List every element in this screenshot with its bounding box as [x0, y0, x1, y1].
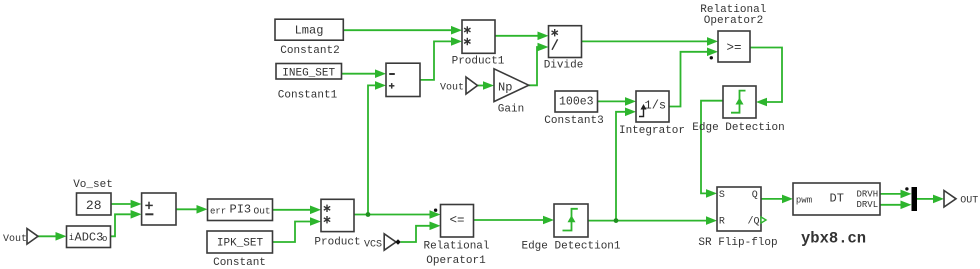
svg-text:Operator2: Operator2	[704, 15, 763, 27]
svg-text:R: R	[719, 217, 725, 228]
svg-text:/Q: /Q	[748, 216, 760, 228]
svg-text:i: i	[69, 233, 74, 243]
svg-text:Edge Detection1: Edge Detection1	[521, 241, 620, 253]
svg-text:Vo_set: Vo_set	[73, 179, 113, 191]
svg-text:Constant2: Constant2	[280, 45, 339, 57]
svg-text:o: o	[102, 234, 107, 244]
svg-text:PI3: PI3	[230, 203, 252, 217]
svg-text:OUT: OUT	[960, 196, 978, 207]
svg-text:28: 28	[86, 198, 102, 213]
svg-text:<=: <=	[449, 214, 464, 228]
svg-text:Product1: Product1	[452, 56, 505, 68]
svg-text:DT: DT	[830, 192, 844, 206]
svg-text:ADC3: ADC3	[75, 231, 104, 245]
svg-text:err: err	[210, 207, 226, 217]
svg-text:Constant3: Constant3	[544, 115, 603, 127]
svg-text:Vout: Vout	[440, 83, 464, 94]
svg-text:Np: Np	[498, 81, 512, 95]
svg-text:DRVL: DRVL	[857, 200, 879, 210]
svg-text:S: S	[719, 190, 725, 201]
svg-text:Operator1: Operator1	[426, 255, 486, 267]
svg-text:pwm: pwm	[796, 196, 812, 206]
svg-text:IPK_SET: IPK_SET	[217, 238, 264, 250]
svg-text:Product: Product	[314, 237, 360, 249]
svg-text:INEG_SET: INEG_SET	[282, 68, 335, 80]
svg-text:100e3: 100e3	[559, 96, 594, 109]
svg-text:ybx8.cn: ybx8.cn	[801, 230, 866, 248]
svg-text:SR Flip-flop: SR Flip-flop	[698, 237, 777, 249]
svg-text:Relational: Relational	[423, 241, 489, 253]
svg-text:Out: Out	[254, 206, 271, 217]
svg-text:>=: >=	[726, 41, 741, 55]
svg-text:VCS: VCS	[364, 240, 382, 251]
svg-text:Constant: Constant	[213, 257, 266, 269]
svg-text:Q: Q	[752, 190, 758, 201]
svg-text:Divide: Divide	[544, 60, 584, 72]
svg-text:Integrator: Integrator	[619, 125, 685, 137]
svg-text:Edge Detection: Edge Detection	[692, 122, 784, 134]
svg-text:1/s: 1/s	[645, 99, 667, 113]
svg-text:Constant1: Constant1	[278, 90, 338, 102]
svg-text:Gain: Gain	[498, 104, 524, 116]
svg-text:Lmag: Lmag	[295, 24, 324, 38]
svg-text:DRVH: DRVH	[857, 190, 879, 200]
svg-text:Vout: Vout	[3, 234, 27, 245]
